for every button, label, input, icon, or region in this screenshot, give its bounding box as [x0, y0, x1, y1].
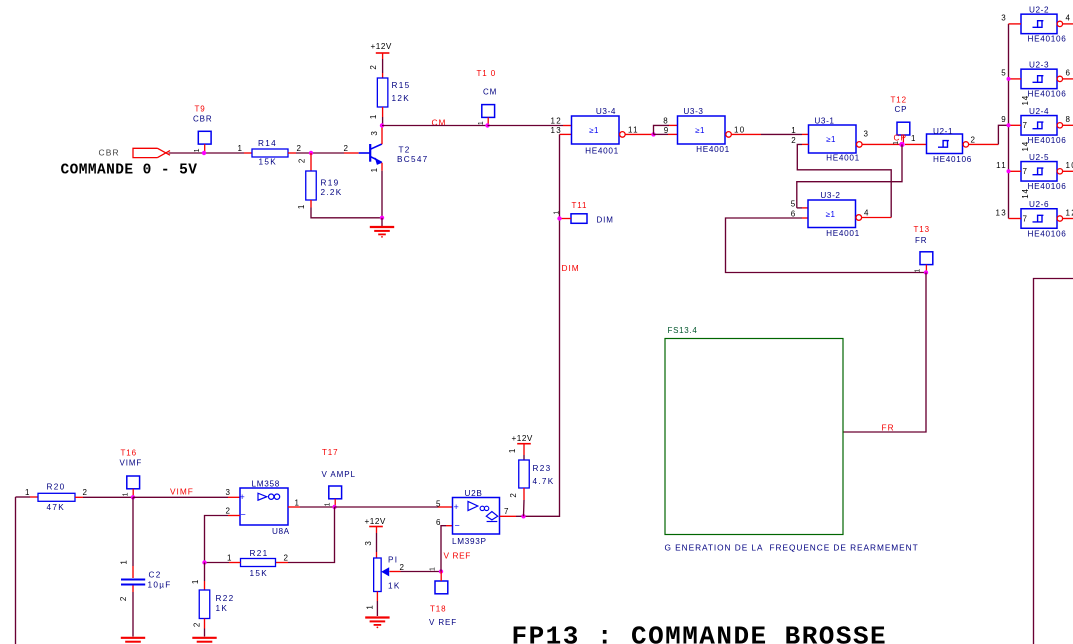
title FP13 : COMMANDE BROSSE — [512, 622, 888, 644]
svg-text:LM393P: LM393P — [452, 537, 487, 546]
svg-text:≥1: ≥1 — [826, 210, 836, 219]
wire: U2-4 output stub — [1063, 124, 1073, 126]
svg-text:FP13 : COMMANDE BROSSE: FP13 : COMMANDE BROSSE — [512, 622, 888, 644]
svg-text:2: 2 — [119, 596, 128, 601]
pin number 2 (R14.2) — [297, 144, 303, 153]
svg-text:2: 2 — [226, 507, 232, 516]
svg-text:HE4001: HE4001 — [585, 146, 619, 155]
wire: U3-1 pin2 feedback from U3-2 output — [797, 144, 891, 217]
svg-text:10: 10 — [1066, 161, 1073, 170]
svg-text:T11: T11 — [572, 201, 588, 210]
svg-text:1: 1 — [194, 148, 201, 153]
test point T9 — [193, 105, 213, 154]
pin number 3 (U3-1.3) — [864, 130, 870, 139]
svg-text:U3-3: U3-3 — [683, 107, 703, 116]
output bubble U2-1 pin 2 — [963, 142, 968, 147]
svg-text:10µF: 10µF — [148, 580, 172, 589]
junction: VAMPL node — [332, 505, 336, 509]
pin number 12 (U3-4.12) — [551, 117, 563, 126]
svg-text:2: 2 — [971, 135, 977, 144]
wire: C2 to ground — [132, 586, 134, 637]
wire: U2-3 output stub — [1063, 78, 1073, 80]
svg-text:≥1: ≥1 — [589, 126, 599, 135]
svg-text:T16: T16 — [121, 449, 138, 458]
svg-text:1: 1 — [914, 268, 921, 273]
svg-text:V REF: V REF — [444, 551, 471, 561]
wire: left border to R20 — [16, 496, 39, 498]
resistor R20 — [38, 483, 75, 513]
wire: +12V to R15 — [382, 59, 384, 78]
svg-text:1: 1 — [120, 559, 129, 564]
svg-text:V REF: V REF — [429, 618, 457, 627]
wire: VIMF node to U8A pin 3 — [133, 496, 240, 498]
resistor R15 — [377, 78, 410, 107]
wire: VAMPL node down to R21 pin 2 — [276, 507, 335, 563]
svg-text:14: 14 — [1021, 95, 1030, 106]
svg-text:3: 3 — [364, 540, 373, 545]
svg-text:1K: 1K — [216, 604, 229, 613]
junction: bus at U2-5 — [1007, 169, 1011, 173]
svg-text:11: 11 — [628, 126, 639, 135]
wire: +12V to PI — [376, 533, 378, 558]
wire: U3-3 out to U3-1 pin 1 — [732, 133, 809, 135]
svg-text:U2-2: U2-2 — [1029, 5, 1049, 14]
pin number 5 (U2B.5) — [436, 499, 442, 508]
junction: VIMF node — [131, 495, 135, 499]
ground (R22) — [192, 638, 216, 644]
pin number 9 (U2-4 input) — [1001, 115, 1007, 124]
svg-text:2: 2 — [509, 492, 518, 497]
pin number 10 (U3-3.10) — [734, 126, 746, 135]
svg-text:R19: R19 — [321, 179, 340, 188]
svg-text:V AMPL: V AMPL — [322, 470, 356, 479]
svg-text:PI: PI — [388, 556, 398, 565]
output bubble U2-6 — [1057, 216, 1062, 221]
wire: PI wiper to VREF node — [389, 566, 441, 571]
svg-text:HE40106: HE40106 — [933, 155, 972, 164]
svg-text:2: 2 — [297, 144, 303, 153]
svg-text:U3-1: U3-1 — [814, 116, 834, 125]
pin number 13 (U3-4.13) — [551, 126, 563, 135]
pin number 2 rotated (C2.2) — [119, 596, 128, 601]
svg-text:CP: CP — [895, 105, 908, 114]
svg-text:2: 2 — [284, 553, 290, 562]
pin number 1 (R14.1) — [238, 144, 244, 153]
junction: R21/R22/U8A.2 node — [202, 560, 206, 564]
wire: CM node to T10 — [382, 125, 488, 127]
wire: DIM net from U3-4 pin13 stub — [560, 133, 572, 135]
wire: R21 pin1 to node — [205, 562, 241, 564]
svg-text:1: 1 — [429, 566, 436, 571]
svg-text:1: 1 — [295, 498, 301, 507]
pin number 2 (R20.2) — [83, 488, 89, 497]
pin number 2 (U2-1.2) — [971, 135, 977, 144]
wire: DIM net vertical (U3-4.13 down to comparator output) — [524, 134, 560, 516]
svg-text:VIMF: VIMF — [120, 459, 143, 468]
wire: CBR arrow to R14 — [169, 152, 252, 154]
svg-text:U2B: U2B — [465, 489, 483, 498]
resistor R14 — [252, 139, 288, 166]
wire: U3-1 out to CP node — [862, 143, 902, 145]
wire: U8A out to VAMPL node — [288, 506, 335, 508]
svg-text:T18: T18 — [430, 604, 447, 613]
svg-text:6: 6 — [1066, 69, 1072, 78]
wire: node down to R19 — [310, 153, 312, 171]
wire: emitter down to ground node — [381, 163, 383, 218]
junction: T10 on CM net — [485, 123, 489, 127]
pin number 8 (U3-3.8) — [663, 117, 669, 126]
svg-text:15K: 15K — [250, 569, 268, 578]
svg-text:1: 1 — [366, 604, 375, 609]
svg-text:U2-1: U2-1 — [933, 127, 953, 136]
svg-text:CBR: CBR — [99, 147, 120, 157]
junction: CM node (collector/R15/wire) — [380, 123, 384, 127]
wire: junction to ground symbol — [381, 218, 383, 226]
svg-text:+12V: +12V — [365, 517, 386, 526]
svg-text:2: 2 — [193, 622, 202, 627]
svg-text:+: + — [454, 502, 459, 512]
svg-text:12: 12 — [551, 117, 563, 126]
svg-text:BC547: BC547 — [397, 155, 429, 164]
wire: bus branch to U2-6 input — [1009, 218, 1022, 220]
svg-text:14: 14 — [1021, 188, 1030, 199]
ground (T2 emitter) — [370, 227, 394, 238]
svg-text:4: 4 — [864, 209, 870, 218]
wire: FR node down to FS13.4 block — [843, 273, 926, 433]
svg-text:8: 8 — [1066, 115, 1072, 124]
junction: T11 on DIM net — [557, 216, 561, 220]
power +12V (R15) — [371, 42, 392, 59]
wire: R19 bottom to emitter/ground net — [311, 200, 382, 218]
svg-text:HE4001: HE4001 — [826, 229, 860, 238]
power +12V (PI) — [365, 517, 386, 533]
svg-text:1: 1 — [122, 492, 129, 497]
schmitt inverter U2-2 (HE40106) — [1021, 5, 1067, 43]
wire: R23 to output node — [523, 488, 526, 516]
label CBR (net name) — [99, 147, 120, 157]
pin number 6 (U3-2.6) — [791, 209, 797, 218]
junction: T9 on CBR net — [202, 151, 206, 155]
pin number 1 rotated (C2.1) — [120, 559, 129, 564]
svg-text:2: 2 — [791, 136, 797, 145]
svg-text:G ENERATION DE LA FREQUENCE D: G ENERATION DE LA FREQUENCE DE REARMEMEN… — [665, 543, 919, 553]
pin number 12 (U2-6 output) — [1066, 208, 1073, 217]
wire: R20 to VIMF node — [75, 496, 133, 498]
ground (PI) — [365, 618, 389, 629]
svg-text:6: 6 — [436, 518, 442, 527]
pin number 2 rotated (R22.2) — [193, 622, 202, 627]
svg-text:2: 2 — [298, 158, 307, 163]
pin number 1 rotated (R19.1) — [297, 204, 306, 209]
wire: T10 to U3-4 pin 12 — [488, 125, 572, 127]
op-amp U8A LM358 — [240, 479, 290, 536]
svg-text:HE40106: HE40106 — [1028, 90, 1067, 99]
test point T13 — [914, 225, 933, 273]
test point T10 — [477, 69, 498, 126]
wire: bus branch to U2-4 input — [1009, 124, 1022, 126]
net label VIMF (red) — [170, 487, 194, 497]
net label DIM (red) — [562, 263, 580, 273]
svg-text:LM358: LM358 — [252, 479, 281, 488]
pin number 10 (U2-5 output) — [1066, 161, 1073, 170]
pin number 3 (U2-2 input) — [1001, 14, 1007, 23]
svg-text:6: 6 — [791, 209, 797, 218]
svg-text:DIM: DIM — [562, 263, 580, 273]
svg-text:12: 12 — [1066, 208, 1073, 217]
pin number 3 rotated (T2 collector) — [370, 130, 379, 135]
net label VREF (red) — [444, 551, 471, 561]
junction: pin8/pin9 feed — [651, 132, 655, 136]
svg-text:47K: 47K — [47, 503, 65, 512]
op-gate U3-4 (NOR HE4001) — [572, 107, 620, 155]
svg-text:2: 2 — [344, 144, 350, 153]
block FS13.4 (frequency generator) — [665, 326, 843, 535]
wire: bus branch to U2-5 input — [1009, 170, 1022, 172]
svg-text:T12: T12 — [891, 96, 908, 105]
pin number 5 (U3-2.5) — [791, 199, 797, 208]
svg-text:R15: R15 — [392, 81, 411, 90]
svg-text:4: 4 — [1066, 14, 1072, 23]
svg-text:14: 14 — [1021, 141, 1030, 152]
wire: U3-2 out to feedback riser — [862, 217, 891, 219]
pin number 1 rotated (R23.1) — [508, 448, 517, 453]
wire: VAMPL node to U2B pin 5 — [335, 506, 453, 508]
svg-text:7: 7 — [1023, 121, 1029, 130]
pin number 1 rotated (R15.1) — [369, 114, 378, 119]
wire: R22 to ground — [204, 619, 206, 637]
svg-text:FR: FR — [882, 423, 895, 433]
svg-text:R14: R14 — [258, 139, 277, 148]
svg-text:1: 1 — [324, 502, 331, 507]
svg-text:DIM: DIM — [597, 215, 614, 224]
wire: FR net into U3-2 pin 6 — [726, 218, 927, 273]
test point T11 — [553, 201, 614, 224]
svg-text:15K: 15K — [259, 158, 277, 167]
pin number 1 (R20.1) — [25, 488, 31, 497]
svg-text:1: 1 — [227, 553, 233, 562]
svg-text:2: 2 — [400, 563, 406, 572]
svg-text:T9: T9 — [195, 105, 206, 114]
svg-text:HE4001: HE4001 — [826, 154, 860, 163]
pin number 2 (T2 base) — [344, 144, 350, 153]
svg-text:1: 1 — [508, 448, 517, 453]
svg-text:T17: T17 — [322, 448, 339, 457]
pin number 11 (U2-5 input) — [996, 161, 1007, 170]
pin number 2 (PI.2 wiper) — [400, 563, 406, 572]
svg-text:4.7K: 4.7K — [533, 477, 555, 486]
wire: +12V to R23 — [523, 449, 525, 460]
svg-text:1: 1 — [478, 120, 485, 125]
svg-text:1: 1 — [911, 134, 917, 143]
svg-text:−: − — [455, 520, 460, 530]
svg-text:HE40106: HE40106 — [1028, 35, 1067, 44]
schmitt inverter U2-4 (HE40106) — [1021, 95, 1067, 145]
output bubble U2-2 — [1057, 21, 1062, 26]
test point T12 — [891, 96, 910, 145]
svg-text:5: 5 — [436, 499, 442, 508]
wire: schmitt input bus (vertical) — [1008, 24, 1010, 219]
svg-text:11: 11 — [996, 161, 1007, 170]
ground (C2) — [121, 638, 145, 644]
test point T17 — [322, 448, 356, 507]
pin number 3 rotated (PI.3) — [364, 540, 373, 545]
svg-text:3: 3 — [1001, 14, 1007, 23]
svg-text:2: 2 — [83, 488, 89, 497]
svg-text:T13: T13 — [914, 225, 931, 234]
svg-text:HE40106: HE40106 — [1028, 229, 1067, 238]
svg-text:3: 3 — [864, 130, 870, 139]
svg-text:7: 7 — [1023, 214, 1029, 223]
wire: R14 to T2 base node — [288, 152, 359, 154]
output bubble U3-2 pin 4 — [856, 215, 862, 221]
pin number 1 (U8A.1) — [295, 498, 301, 507]
wire: bus branch to U2-2 input — [1009, 23, 1022, 25]
svg-text:T2: T2 — [399, 146, 411, 155]
junction: bus at U2-4 — [1007, 123, 1011, 127]
net label FR (red) — [882, 423, 895, 433]
svg-text:3: 3 — [226, 488, 232, 497]
output bubble U2-4 — [1057, 123, 1062, 128]
svg-text:U2-4: U2-4 — [1029, 107, 1049, 116]
svg-text:U2-6: U2-6 — [1029, 200, 1049, 209]
transistor T2 BC547 — [359, 144, 429, 165]
junction: bus at U2-3 — [1007, 77, 1011, 81]
svg-text:COMMANDE 0 - 5V: COMMANDE 0 - 5V — [61, 163, 198, 179]
pin number 5 (U2-3 input) — [1001, 69, 1007, 78]
pin number 11 (U3-4.11) — [628, 126, 639, 135]
svg-text:1: 1 — [191, 579, 200, 584]
svg-text:U2-5: U2-5 — [1029, 153, 1049, 162]
pin number 2 (U8A.2) — [226, 507, 232, 516]
pin number 2 rotated (R23.2) — [509, 492, 518, 497]
svg-text:2.2K: 2.2K — [321, 188, 343, 197]
svg-text:HE40106: HE40106 — [1028, 182, 1067, 191]
output bubble U3-1 pin 3 — [857, 142, 863, 148]
svg-text:U8A: U8A — [272, 527, 290, 536]
pin number 13 (U2-6 input) — [996, 208, 1008, 217]
junction: CP node — [899, 142, 904, 147]
wire: U2-1 out up to input bus — [969, 125, 1009, 144]
pin number 4 (U2-2 output) — [1066, 14, 1072, 23]
svg-text:10: 10 — [734, 126, 746, 135]
svg-text:−: − — [241, 510, 246, 520]
label COMMANDE 0 - 5V — [61, 163, 198, 179]
output bubble U3-3 pin 10 — [726, 132, 732, 138]
svg-text:R23: R23 — [533, 464, 552, 473]
svg-text:VIMF: VIMF — [170, 487, 194, 497]
pin number 2 rotated (R15.2) — [369, 64, 378, 69]
svg-text:2: 2 — [369, 64, 378, 69]
wire: junction to U3-3 pin 9 — [654, 133, 678, 135]
svg-text:HE40106: HE40106 — [1028, 136, 1067, 145]
wire: VIMF node down to C2 — [132, 497, 134, 578]
net label CM — [432, 117, 447, 127]
resistor R19 — [306, 171, 343, 200]
svg-text:≥1: ≥1 — [826, 135, 836, 144]
output bubble U3-4 pin 11 — [620, 132, 626, 138]
svg-text:9: 9 — [664, 126, 670, 135]
svg-text:HE4001: HE4001 — [696, 145, 730, 154]
svg-text:5: 5 — [791, 199, 797, 208]
pin number 2 (R21.2) — [284, 553, 290, 562]
schmitt inverter U2-5 (HE40106) — [1021, 141, 1067, 191]
pin number 9 (U3-3.9) — [664, 126, 670, 135]
power +12V (R23) — [512, 434, 533, 449]
capacitor C2 — [121, 571, 172, 590]
svg-text:U3-2: U3-2 — [820, 191, 840, 200]
wire: junction up to U3-3 pin 8 — [654, 125, 678, 134]
svg-text:T1 0: T1 0 — [477, 69, 497, 78]
output bubble U2-3 — [1057, 76, 1062, 81]
svg-text:+12V: +12V — [512, 434, 533, 443]
wire: U2-5 output stub — [1063, 170, 1073, 172]
wire: U2B out to R23 node — [500, 515, 524, 517]
pin number 1 (U3-1.1) — [791, 126, 797, 135]
junction: emitter/R19/ground — [380, 216, 384, 220]
svg-text:1: 1 — [238, 144, 244, 153]
op-gate U3-1 (NOR HE4001) — [809, 116, 860, 162]
svg-text:1: 1 — [25, 488, 31, 497]
wire: U8A pin2 to R21/R22 node — [205, 516, 241, 563]
pin number 4 (U3-2.4) — [864, 209, 870, 218]
svg-text:1: 1 — [297, 204, 306, 209]
wire: U3-4 out to U3-3 inputs — [626, 133, 654, 135]
wire: left border net going off-page bottom-left — [15, 497, 17, 644]
pin number 8 (U2-4 output) — [1066, 115, 1072, 124]
svg-text:U3-4: U3-4 — [596, 107, 616, 116]
pin number 1 rotated (T2 emitter) — [370, 167, 379, 172]
schmitt inverter U2-6 (HE40106) — [1021, 188, 1067, 238]
svg-text:C2: C2 — [149, 571, 162, 580]
op-gate U3-3 (NOR HE4001) — [678, 107, 730, 154]
svg-text:8: 8 — [663, 117, 669, 126]
pin number 3 (U8A.3) — [226, 488, 232, 497]
wire: PI to ground — [376, 592, 378, 617]
junction: R14/R19/base node — [309, 151, 313, 155]
test point T18 — [429, 572, 457, 628]
pin number 6 (U2B.6) — [436, 518, 442, 527]
potentiometer PI 1K — [374, 556, 401, 592]
resistor R22 — [199, 590, 234, 619]
pin number 1 rotated (PI.1) — [366, 604, 375, 609]
wire: VREF node up to U2B pin 6 — [441, 526, 453, 572]
pin number 1 (U2-1.1) — [911, 134, 917, 143]
connector CBR (input arrow) — [133, 148, 170, 157]
svg-text:1: 1 — [893, 140, 900, 145]
test point T16 — [120, 449, 143, 498]
wire: U2-2 output stub — [1063, 23, 1073, 25]
wire: R15 bottom to CM node — [382, 107, 384, 126]
junction: FR/T13 node — [924, 270, 928, 274]
svg-text:1K: 1K — [388, 582, 401, 591]
pin number 7 (U2B.7) — [504, 507, 510, 516]
svg-text:FS13.4: FS13.4 — [668, 326, 698, 335]
svg-text:CM: CM — [483, 88, 497, 97]
svg-text:1: 1 — [370, 167, 379, 172]
resistor R21 — [241, 549, 276, 578]
svg-text:FR: FR — [915, 236, 927, 245]
svg-text:7: 7 — [1023, 167, 1029, 176]
wire: collector to CM node — [381, 126, 383, 145]
svg-text:1: 1 — [369, 114, 378, 119]
wire: CP node to U2-1 pin 1 — [905, 143, 927, 145]
caption GENERATION DE LA FREQUENCE DE REARMEMENT — [665, 543, 919, 553]
resistor R23 — [519, 460, 555, 488]
net label CP (red) — [893, 133, 907, 145]
svg-text:+: + — [240, 492, 245, 502]
wire: bus branch to U2-3 input — [1009, 78, 1022, 80]
svg-text:3: 3 — [370, 130, 379, 135]
